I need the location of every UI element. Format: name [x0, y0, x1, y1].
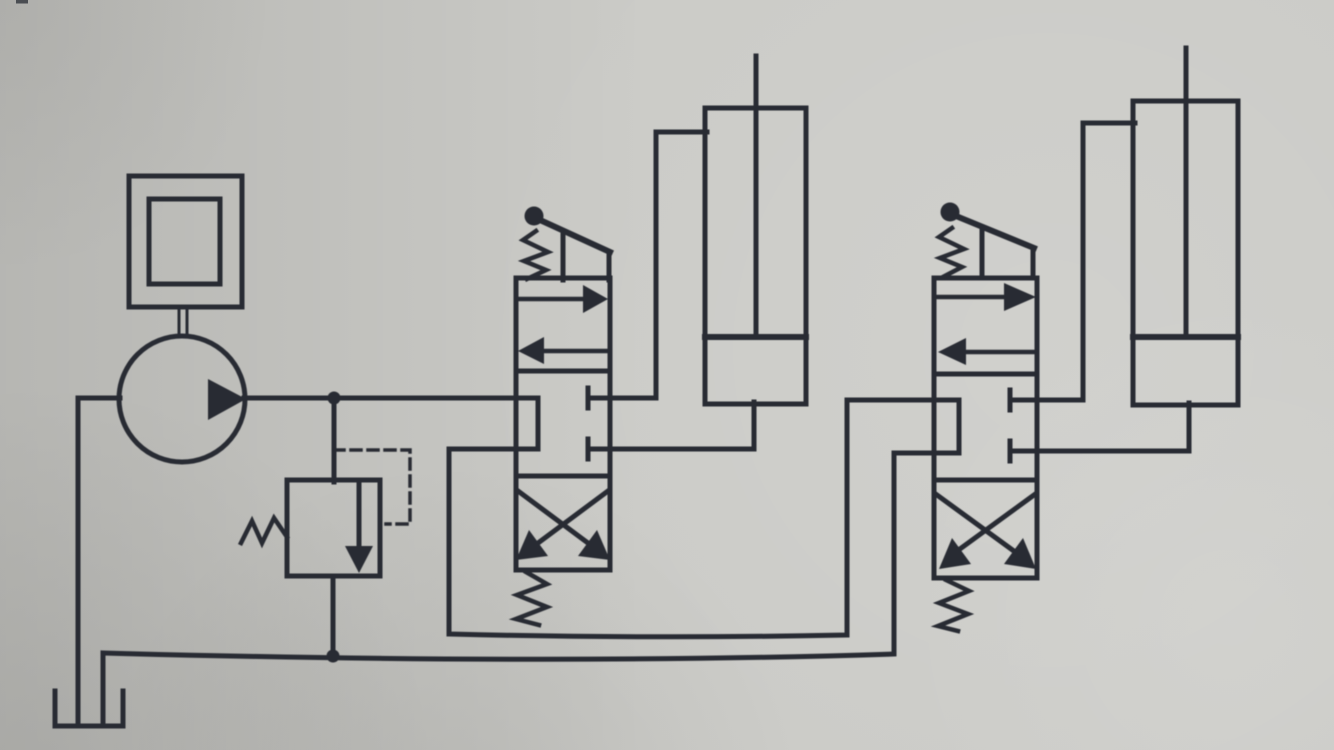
cylinder C2 rod — [1184, 48, 1189, 334]
valve V1 lever actuator — [525, 207, 611, 281]
wire: valve V1 port B to cylinder C1 cap end — [588, 402, 754, 449]
valve V1 blocked port B (T symbol) — [588, 439, 610, 459]
valve V2 top position arrows — [936, 283, 1036, 365]
cylinder C2 piston — [1133, 334, 1238, 340]
wire: relief valve outlet — [331, 576, 336, 655]
shaft — [179, 307, 187, 336]
pump P1 — [119, 336, 246, 462]
electric motor M1 — [129, 176, 242, 307]
relief valve RV1 spring — [241, 518, 287, 543]
wire: valve V2 port A to cylinder C2 rod end — [1010, 123, 1135, 400]
valve V2 bottom position crossed arrows — [937, 495, 1036, 569]
valve V2 blocked port A (T symbol) — [1010, 390, 1037, 410]
valve V2 bottom spring — [938, 580, 969, 631]
wire: pilot line (dashed) — [334, 450, 410, 524]
relief valve RV1 body — [287, 480, 380, 576]
node: return line junction — [327, 650, 340, 663]
valve V2 top spring — [939, 228, 964, 277]
valve V1 bottom spring — [516, 572, 547, 625]
cylinder C1 barrel — [705, 108, 806, 404]
wire: P-to-T chain (pump line, valve V1 tandem centre, crossover to valve V2, return to tank) — [103, 398, 959, 724]
valve V2 lever actuator — [941, 203, 1035, 279]
tank — [55, 691, 123, 726]
cylinder C1 rod — [754, 56, 759, 334]
cylinder C1 piston — [705, 334, 806, 340]
photo edge artifact top-left — [16, 0, 28, 4]
wire: pump suction line — [78, 398, 120, 724]
cylinder C2 barrel — [1133, 101, 1238, 405]
valve V2 body (3-position, 4-way) — [934, 278, 1037, 578]
wire: valve V2 port B to cylinder C2 cap end — [1010, 403, 1189, 451]
wire: relief valve feed — [332, 398, 337, 482]
valve V1 top position arrows — [518, 285, 608, 364]
valve V1 bottom position crossed arrows — [516, 491, 610, 560]
valve V1 blocked port A (T symbol) — [588, 388, 610, 408]
valve V2 blocked port B (T symbol) — [1010, 441, 1037, 461]
node: pump outlet junction — [328, 392, 341, 405]
relief valve RV1 internal arrow — [345, 482, 373, 573]
valve V1 body (3-position, 4-way) — [516, 278, 610, 570]
wire: valve V1 port A to cylinder C1 rod end — [588, 132, 707, 398]
valve V1 top spring — [523, 231, 548, 279]
